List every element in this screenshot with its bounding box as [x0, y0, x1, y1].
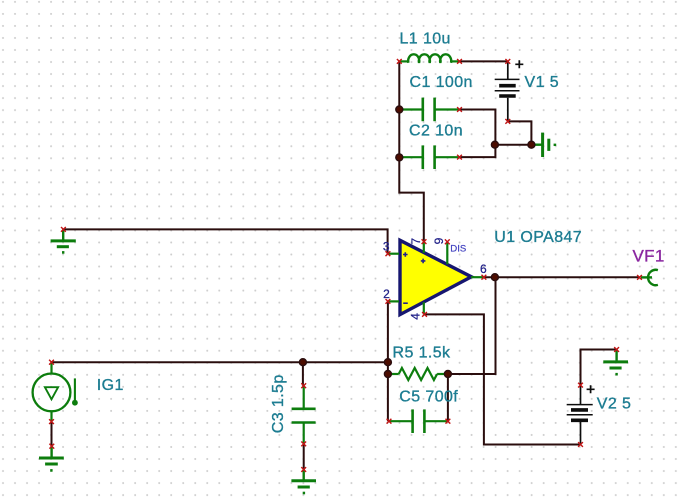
junction node C3 top [299, 359, 306, 366]
x V2 ground [614, 347, 619, 352]
svg-text:V2 5: V2 5 [597, 396, 632, 413]
capacitor C1 [399, 98, 459, 122]
x pin7 [422, 239, 427, 244]
svg-text:DIS: DIS [450, 244, 466, 255]
x pin6 [482, 275, 487, 280]
x V2 top [578, 383, 583, 388]
x pin4 [422, 312, 427, 317]
junction node C1 left [396, 106, 403, 113]
junction node inverting [384, 359, 391, 366]
plus sign V2 [587, 385, 595, 393]
wire R5 right to C5 right [447, 374, 449, 421]
svg-text:C5 700f: C5 700f [399, 388, 458, 405]
arrow dot IG1 [72, 400, 78, 406]
wire V2 plus to ground [581, 350, 617, 386]
wire left supply column L1/C1/C2 [398, 61, 400, 157]
svg-text:2: 2 [383, 287, 390, 301]
junction node output [491, 274, 498, 281]
plus sign V1 [515, 60, 523, 68]
x IG1 ground [49, 444, 54, 449]
svg-text:VF1: VF1 [633, 246, 665, 265]
x C3 ground [301, 467, 306, 472]
ground left (pin3 net) [51, 229, 76, 252]
x VF1 [637, 275, 642, 280]
x L1 right [457, 59, 462, 64]
svg-text:C1 100n: C1 100n [410, 74, 473, 91]
x pin2 [386, 299, 391, 304]
x C5 left [387, 419, 392, 424]
plus mark at pin7 [421, 259, 426, 264]
pin 4 stub [423, 302, 425, 314]
pin 7 stub [423, 242, 425, 253]
ground under IG1 [39, 446, 64, 470]
voltage probe VF1 [641, 270, 658, 285]
wire jog to pin7 [399, 157, 424, 241]
wire V1 bottom to ground node [508, 121, 532, 144]
battery V2 [567, 385, 593, 444]
svg-text:L1 10u: L1 10u [400, 30, 451, 47]
x V1 bottom [505, 119, 510, 124]
inductor L1 [399, 54, 459, 62]
pin 2 stub [388, 300, 399, 302]
op-amp U1 [400, 240, 471, 314]
wire pin4 to V2 minus [425, 314, 581, 444]
svg-text:6: 6 [480, 262, 487, 276]
wire IG1 to inverting node [52, 361, 388, 363]
wire L1 right to V1 top [460, 60, 508, 62]
capacitor C5 [389, 409, 448, 433]
junction node C2 left [396, 154, 403, 161]
x V1 top [505, 59, 510, 64]
svg-text:U1 OPA847: U1 OPA847 [494, 229, 582, 246]
wire C1 right / C2 right vertical [460, 110, 496, 158]
x L1 left [397, 59, 402, 64]
x left ground [61, 227, 66, 232]
x C5 right [446, 419, 451, 424]
wire C3 bottom to ground [303, 444, 305, 470]
plus mark at pin3 [403, 252, 408, 257]
wire feedback R5 right to output [448, 277, 496, 374]
svg-text:C3 1.5p: C3 1.5p [270, 374, 287, 433]
x IG1 bottom [49, 419, 54, 424]
minus mark at pin2 [403, 302, 408, 304]
x pin9 [445, 239, 450, 244]
svg-text:7: 7 [409, 238, 423, 245]
wire pin2 down to C5 left [387, 301, 389, 421]
svg-text:9: 9 [432, 237, 446, 244]
ground under C3 [291, 470, 316, 494]
x C3 top [301, 383, 306, 388]
wire IG1 bottom to ground [51, 422, 53, 447]
terminal crosses [49, 59, 642, 472]
svg-text:C2 10n: C2 10n [409, 123, 463, 140]
wire C3 top stub [302, 362, 304, 386]
svg-text:4: 4 [408, 313, 422, 320]
battery V1 [495, 61, 520, 121]
junction node C1C2 right [491, 141, 498, 148]
junction node R5 right [444, 371, 451, 378]
x C3 bottom [301, 442, 306, 447]
x IG1 top [49, 360, 54, 365]
svg-text:V1 5: V1 5 [525, 74, 560, 91]
current source IG1 [33, 363, 75, 422]
x V2 bottom [578, 442, 583, 447]
junction node V1 ground [528, 141, 535, 148]
svg-text:IG1: IG1 [97, 377, 124, 394]
svg-text:R5 1.5k: R5 1.5k [393, 345, 452, 362]
x C1 right [457, 107, 462, 112]
x C2 right [457, 155, 462, 160]
pin 9 stub [446, 242, 448, 264]
capacitor C2 [399, 145, 459, 169]
pin 6 stub [471, 276, 484, 278]
pin 3 stub [388, 253, 399, 255]
x pin3 [386, 251, 391, 256]
ground at V2 [603, 350, 628, 375]
ground at V1 (rotated) [534, 133, 555, 157]
wire output to VF1 [484, 276, 640, 278]
wire node to V1 ground net [495, 144, 532, 146]
capacitor C3 [292, 386, 316, 444]
wire pin3 to left ground [63, 229, 387, 253]
junction node R5 left [384, 371, 391, 378]
resistor R5 [388, 368, 448, 380]
